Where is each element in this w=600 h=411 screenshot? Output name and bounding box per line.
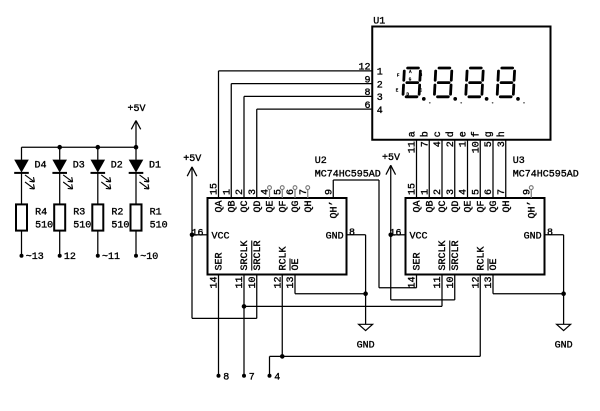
svg-text:SER: SER	[215, 252, 226, 270]
wire: resistor R1 to terminal ~10	[135, 231, 137, 256]
U1 digit 3 comma mark	[492, 102, 494, 104]
svg-text:SER: SER	[413, 252, 424, 270]
svg-text:b: b	[419, 131, 431, 137]
terminal node ~10	[134, 254, 138, 258]
junction on +5V rail at D2	[96, 145, 101, 150]
svg-text:510: 510	[150, 220, 168, 231]
svg-text:SRCLK: SRCLK	[438, 240, 449, 270]
svg-text:GND: GND	[555, 341, 573, 352]
wire: LED D1 cathode to resistor R1	[135, 173, 137, 204]
svg-text:e: e	[459, 131, 470, 137]
terminal node 4	[268, 374, 272, 378]
wire: U3 OE to ground	[492, 275, 494, 294]
svg-text:3: 3	[248, 189, 259, 195]
wire: U2 GND to ground	[347, 234, 366, 236]
wire: rail to LED D2 anode	[97, 147, 99, 160]
junction: U3 OE at ground wire	[561, 291, 566, 296]
svg-text:RCLK: RCLK	[278, 246, 289, 270]
wire: U2 QH' to U3 SER	[332, 180, 334, 198]
svg-text:12: 12	[358, 63, 370, 74]
U1 digit 2 decimal point	[453, 97, 457, 101]
+5V power symbol (U3)	[382, 153, 400, 300]
svg-text:510: 510	[35, 220, 53, 231]
svg-text:QB: QB	[425, 201, 436, 213]
svg-text:510: 510	[111, 220, 129, 231]
display U1	[372, 27, 550, 140]
svg-text:QC: QC	[240, 201, 251, 213]
terminal node ~11	[96, 254, 100, 258]
U1 digit 3 decimal point	[485, 97, 489, 101]
svg-text:QE: QE	[266, 201, 277, 213]
wire: resistor R2 to terminal ~11	[97, 231, 99, 256]
svg-text:D2: D2	[111, 161, 123, 172]
svg-text:8: 8	[547, 228, 553, 239]
junction on +5V rail at D3	[57, 145, 62, 150]
svg-text:15: 15	[408, 183, 419, 195]
ground symbol (U3)	[555, 324, 573, 351]
U1 digit 2 (7-segment 8)	[434, 68, 452, 97]
svg-text:U2: U2	[315, 156, 327, 167]
svg-text:QH: QH	[502, 201, 513, 213]
svg-text:R3: R3	[73, 207, 85, 218]
unconnected pin stub	[281, 190, 283, 198]
svg-text:10: 10	[471, 141, 482, 153]
svg-text:~10: ~10	[140, 252, 158, 263]
svg-text:+5V: +5V	[382, 153, 400, 164]
svg-text:QA: QA	[413, 201, 424, 213]
wire: LED D4 cathode to resistor R4	[21, 173, 23, 204]
svg-text:+5V: +5V	[127, 104, 145, 115]
shift register U3 MC74HC595AD	[406, 198, 545, 275]
svg-text:7: 7	[249, 373, 255, 384]
svg-text:11: 11	[408, 141, 419, 153]
svg-text:8: 8	[349, 228, 355, 239]
wire: U1 pin 2 to U2 QB (net 9)	[231, 83, 372, 85]
wire: LED D3 cathode to resistor R3	[59, 173, 61, 204]
wire: U2 SRCLK to terminal 7	[243, 275, 245, 376]
wire: U3 SRCLR to +5V	[454, 275, 456, 300]
U1 digit 3 (7-segment 8)	[466, 68, 484, 97]
wire: U1 segment h (pin 3) to U3 QH	[505, 140, 507, 198]
svg-text:SRCLR: SRCLR	[451, 240, 462, 270]
wire: U1 segment d (pin 2) to U3 QD	[454, 140, 456, 198]
wire: terminal 4 to RCLK bus	[269, 356, 271, 375]
svg-text:c: c	[433, 131, 444, 137]
terminal node ~13	[20, 254, 24, 258]
svg-text:D3: D3	[73, 161, 85, 172]
svg-text:3: 3	[497, 141, 508, 147]
junction: +5V at U3 VCC	[388, 233, 393, 238]
svg-text:6: 6	[484, 189, 495, 195]
svg-text:f: f	[470, 131, 482, 137]
wire: RCLK bus U2 to U3	[281, 275, 283, 357]
svg-text:5: 5	[484, 141, 495, 147]
svg-text:1: 1	[222, 189, 233, 195]
svg-text:12: 12	[64, 252, 76, 263]
wire: +5V rail feeding LEDs	[22, 146, 137, 148]
junction: RCLK net	[280, 354, 285, 359]
wire: U1 pin 4 to U2 QD (net 6)	[257, 108, 373, 110]
svg-text:OE: OE	[291, 258, 302, 270]
U1 digit 1 comma mark	[429, 102, 431, 104]
svg-text:GND: GND	[524, 231, 542, 242]
svg-text:MC74HC595AD: MC74HC595AD	[315, 170, 381, 181]
svg-text:5: 5	[471, 189, 482, 195]
wire: U3 VCC stub	[391, 234, 406, 236]
svg-text:1: 1	[420, 189, 431, 195]
U1 digit 4 decimal point	[516, 97, 520, 101]
svg-text:1: 1	[459, 141, 470, 147]
svg-text:2: 2	[446, 141, 457, 147]
svg-text:QH: QH	[304, 201, 315, 213]
resistor R4	[16, 204, 27, 230]
LED D3	[52, 160, 72, 189]
svg-text:QB: QB	[227, 201, 238, 213]
svg-text:MC74HC595AD: MC74HC595AD	[513, 170, 579, 181]
resistor R1	[131, 204, 142, 230]
terminal node 12	[58, 254, 62, 258]
junction on +5V rail at D1	[134, 145, 139, 150]
wire: U1 segment b (pin 7) to U3 QB	[428, 140, 430, 198]
svg-text:3: 3	[377, 93, 383, 104]
svg-text:R2: R2	[111, 207, 123, 218]
svg-text:g: g	[484, 131, 495, 137]
wire: U1 segment e (pin 1) to U3 QE	[467, 140, 469, 198]
svg-text:SRCLR: SRCLR	[253, 240, 264, 270]
svg-text:GND: GND	[326, 231, 344, 242]
svg-text:~13: ~13	[26, 252, 44, 263]
+5V power symbol (U2)	[183, 154, 201, 318]
wire: LED D2 cathode to resistor R2	[97, 173, 99, 204]
svg-text:R1: R1	[150, 207, 162, 218]
svg-text:QF: QF	[476, 201, 487, 213]
svg-text:QD: QD	[253, 201, 264, 213]
wire: U2 SRCLR to +5V	[256, 275, 258, 319]
U3 SRCLR overline	[449, 241, 451, 271]
svg-text:h: h	[496, 131, 508, 137]
wire: SRCLK bus U2 to U3	[244, 305, 442, 307]
svg-text:a: a	[408, 131, 419, 137]
unconnected pin stub	[307, 190, 309, 198]
svg-text:QG: QG	[291, 201, 302, 213]
svg-text:4: 4	[459, 189, 470, 195]
svg-text:U3: U3	[513, 156, 525, 167]
terminal node 8	[217, 374, 221, 378]
wire: U1 segment g (pin 5) to U3 QG	[492, 140, 494, 198]
svg-text:RCLK: RCLK	[476, 246, 487, 270]
wire: resistor R4 to terminal ~13	[21, 231, 23, 256]
junction: U2 OE at ground wire	[363, 291, 368, 296]
svg-text:VCC: VCC	[212, 231, 230, 242]
wire: U1 pin 3 to U2 QC (net 8)	[244, 95, 372, 97]
svg-text:4: 4	[377, 106, 383, 117]
U1 digit 2 comma mark	[460, 102, 462, 104]
svg-text:4: 4	[433, 141, 444, 147]
svg-text:D4: D4	[35, 161, 47, 172]
svg-text:QC: QC	[438, 201, 449, 213]
wire: U2 SER to terminal 8	[218, 275, 220, 376]
wire: U2 VCC stub	[192, 234, 208, 236]
svg-text:QH’: QH’	[328, 201, 340, 219]
svg-text:GND: GND	[357, 341, 375, 352]
svg-text:QD: QD	[451, 201, 462, 213]
svg-text:7: 7	[497, 189, 508, 195]
svg-text:1: 1	[377, 68, 383, 79]
U1 digit 4 (7-segment 8)	[497, 68, 515, 97]
ground symbol (U2)	[357, 324, 375, 351]
svg-text:OE: OE	[489, 258, 500, 270]
junction: +5V at U2 VCC	[190, 233, 195, 238]
svg-text:d: d	[445, 131, 457, 137]
unconnected pin stub	[294, 190, 296, 198]
svg-text:2: 2	[377, 80, 383, 91]
LED D1	[129, 160, 149, 189]
resistor R2	[92, 204, 103, 230]
svg-text:9: 9	[364, 75, 370, 86]
+5V power symbol (LED rail)	[127, 104, 145, 147]
U3 OE overline	[487, 259, 489, 271]
wire: U1 segment c (pin 4) to U3 QC	[441, 140, 443, 198]
svg-text:8: 8	[364, 88, 370, 99]
U1 digit 1 decimal point	[422, 97, 426, 101]
wire: U1 pin 1 to U2 QA (net 12)	[219, 70, 373, 72]
U2 OE overline	[289, 259, 291, 271]
wire: resistor R3 to terminal 12	[59, 231, 61, 256]
wire: U1 segment f (pin 10) to U3 QF	[479, 140, 481, 198]
wire: U3 GND to ground	[545, 234, 564, 236]
junction: SRCLK net	[242, 304, 247, 309]
svg-text:VCC: VCC	[410, 231, 428, 242]
svg-text:~11: ~11	[102, 252, 120, 263]
svg-text:4: 4	[274, 373, 280, 384]
svg-text:2: 2	[235, 189, 246, 195]
svg-text:8: 8	[223, 373, 229, 384]
svg-text:D1: D1	[149, 161, 161, 172]
svg-text:U1: U1	[373, 17, 385, 28]
svg-text:15: 15	[210, 183, 221, 195]
wire: rail to LED D1 anode	[135, 147, 137, 160]
svg-text:+5V: +5V	[183, 154, 201, 165]
U1 segment letter annotations on first digit	[396, 71, 423, 98]
wire: rail to LED D4 anode	[21, 147, 23, 160]
svg-text:R4: R4	[35, 207, 47, 218]
svg-text:QG: QG	[489, 201, 500, 213]
LED D4	[14, 160, 34, 189]
unconnected pin stub	[269, 190, 271, 198]
U1 digit 4 comma mark	[523, 102, 525, 104]
U2 SRCLR overline	[251, 241, 253, 271]
wire: U2 OE to ground	[294, 275, 296, 294]
svg-text:510: 510	[73, 220, 91, 231]
U1 digit 1 (7-segment 8)	[403, 68, 421, 97]
wire: rail to LED D3 anode	[59, 147, 61, 160]
unconnected pin stub	[530, 190, 532, 198]
LED D2	[91, 160, 111, 189]
wire: U1 segment a (pin 11) to U3 QA	[416, 140, 418, 198]
svg-text:QF: QF	[278, 201, 289, 213]
svg-text:QA: QA	[215, 201, 226, 213]
svg-text:QH’: QH’	[526, 201, 538, 219]
svg-text:7: 7	[420, 141, 431, 147]
resistor R3	[54, 204, 65, 230]
svg-text:SRCLK: SRCLK	[240, 240, 251, 270]
svg-text:6: 6	[364, 101, 370, 112]
svg-text:3: 3	[446, 189, 457, 195]
terminal node 7	[242, 374, 246, 378]
svg-text:2: 2	[433, 189, 444, 195]
svg-text:QE: QE	[464, 201, 475, 213]
shift register U2 MC74HC595AD	[208, 198, 347, 275]
